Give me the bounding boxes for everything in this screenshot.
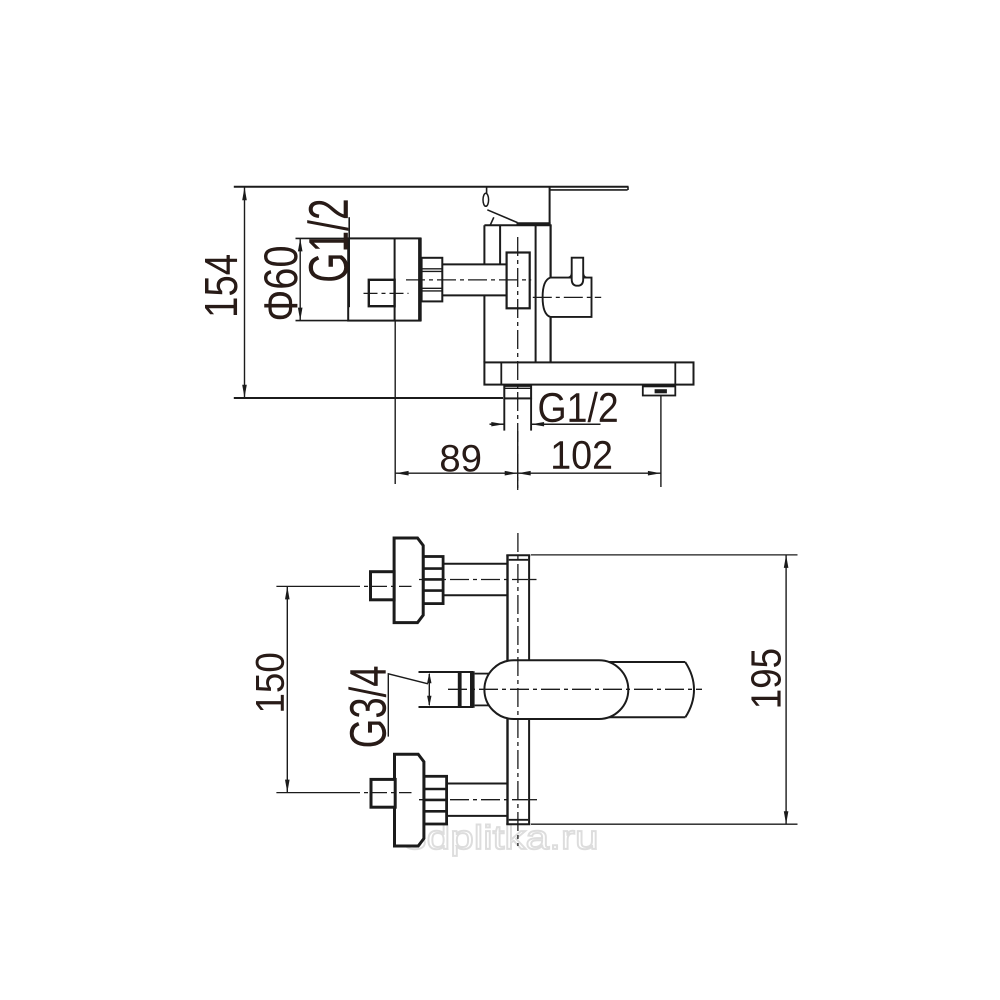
lever cover left vertical bbox=[486, 187, 488, 194]
154 bottom extension line bbox=[234, 397, 503, 399]
102 extension right bbox=[660, 396, 662, 487]
lever cover tick bbox=[490, 217, 494, 225]
G3/4 ring 1 bbox=[458, 672, 462, 707]
154 arrow down bbox=[242, 385, 247, 398]
diverter body bbox=[543, 278, 592, 317]
G3/4 leader bbox=[388, 674, 428, 737]
label G1/2 bbox=[539, 392, 616, 423]
89 dimension line bbox=[396, 472, 518, 474]
top union wall axis bbox=[276, 585, 345, 587]
bottom union escutcheon bbox=[395, 754, 424, 846]
outlet thread left bbox=[503, 398, 505, 430]
outlet vertical centerline bbox=[517, 237, 519, 490]
union socket bbox=[369, 280, 395, 306]
label 154 bbox=[205, 255, 238, 315]
bottom union pipe bbox=[447, 783, 508, 785]
G3/4 ring 2 bbox=[470, 671, 475, 708]
lever bottom thick line bbox=[517, 222, 551, 225]
diverter stem left fillet bbox=[568, 274, 571, 278]
watermark 3dplitka.ru bbox=[405, 825, 596, 856]
escutcheon inner face line bbox=[394, 238, 396, 320]
top union pipe bbox=[443, 563, 508, 565]
top union hex collar bbox=[423, 557, 443, 604]
lever end cap bbox=[627, 187, 629, 190]
195 bottom extension bbox=[531, 823, 798, 825]
G1/2 outlet label line bbox=[531, 423, 600, 425]
bottom union faucet axis bbox=[419, 799, 528, 801]
main axis centerline bbox=[406, 279, 531, 281]
body column right lower segment bbox=[549, 317, 551, 363]
aerator bbox=[643, 386, 676, 395]
102 dimension line bbox=[518, 472, 661, 474]
escutcheon face thick edge bbox=[418, 238, 422, 321]
wall escutcheon plate bbox=[348, 238, 420, 320]
spout arm bbox=[484, 362, 693, 384]
89/102 shared extension bbox=[517, 431, 519, 488]
89 extension line left bbox=[394, 321, 396, 484]
phi60 dimension line bbox=[299, 238, 301, 320]
195 top extension bbox=[531, 554, 798, 556]
body column right upper segment bbox=[549, 225, 551, 277]
aerator screen bbox=[655, 389, 667, 393]
union hex nut bbox=[422, 258, 443, 302]
diverter stem right fillet bbox=[583, 274, 586, 278]
spout arm right step bbox=[674, 362, 676, 384]
label G1/2 bbox=[307, 200, 348, 280]
lever handle bar underline bbox=[550, 189, 628, 191]
label 89 bbox=[441, 445, 480, 472]
top union square nut bbox=[371, 572, 395, 600]
label G3/4 bbox=[348, 667, 386, 747]
label Φ60 bbox=[264, 247, 298, 319]
bottom union square nut bbox=[371, 779, 395, 807]
spout tube top bbox=[605, 661, 685, 663]
154 arrow up bbox=[242, 187, 247, 200]
lever underside slope bbox=[487, 210, 517, 223]
195 dimension line bbox=[785, 555, 787, 824]
bottom union hex collar bbox=[424, 776, 447, 824]
flange slider bbox=[507, 253, 530, 309]
body plate bbox=[508, 555, 530, 824]
G3/4 stub pipe bbox=[475, 673, 490, 675]
lever nose ellipse bbox=[483, 193, 489, 206]
phi60 bottom extension bbox=[296, 320, 349, 322]
bottom union wall axis bbox=[276, 792, 345, 794]
body column inner-left bbox=[499, 225, 501, 280]
150 dimension line bbox=[286, 586, 288, 792]
spout tube right end arc bbox=[685, 662, 694, 717]
outlet thread right bbox=[530, 398, 532, 430]
G3/4 connector body bbox=[419, 671, 474, 673]
top union faucet axis bbox=[419, 579, 528, 581]
capsule axis centerline bbox=[448, 688, 702, 690]
label 102 bbox=[553, 441, 611, 469]
G3/4 thread arrow bbox=[428, 674, 430, 705]
G1/2 outlet label arrow left bbox=[490, 423, 505, 425]
diverter axis centerline bbox=[533, 296, 601, 298]
body top edge bbox=[484, 224, 551, 226]
body vertical centerline bbox=[517, 533, 519, 846]
hand shower outlet collar bbox=[504, 386, 531, 399]
label 150 bbox=[256, 654, 285, 711]
G1/2 wall thread leader bbox=[348, 217, 350, 307]
inlet pipe bbox=[442, 264, 506, 295]
spout arm left step bbox=[500, 362, 502, 384]
154 top extension line / lever top bbox=[234, 186, 629, 188]
diverter stem bbox=[572, 258, 584, 286]
154 dimension line bbox=[244, 187, 246, 398]
body column left bbox=[483, 225, 485, 362]
top union escutcheon bbox=[394, 538, 423, 623]
socket axis centerline bbox=[364, 292, 409, 294]
spout tube bottom bbox=[605, 716, 685, 718]
body capsule bbox=[484, 660, 628, 719]
body column inner-right bbox=[535, 225, 537, 362]
phi60 top extension bbox=[296, 237, 349, 239]
lever cover right vertical bbox=[549, 187, 551, 225]
label 195 bbox=[751, 650, 781, 707]
